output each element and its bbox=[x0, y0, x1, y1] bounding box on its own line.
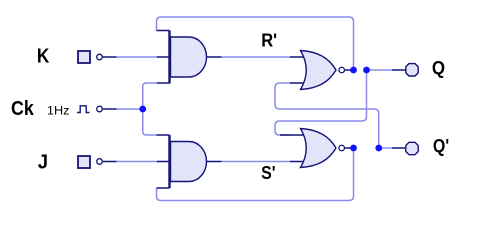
svg-text:J: J bbox=[38, 151, 48, 174]
svg-text:Ck: Ck bbox=[11, 98, 34, 120]
svg-text:S': S' bbox=[261, 162, 275, 184]
svg-text:Q': Q' bbox=[433, 135, 449, 157]
svg-text:K: K bbox=[37, 45, 50, 68]
svg-text:R': R' bbox=[261, 30, 277, 51]
svg-text:Q: Q bbox=[432, 57, 445, 78]
svg-text:1Hz: 1Hz bbox=[47, 104, 70, 118]
